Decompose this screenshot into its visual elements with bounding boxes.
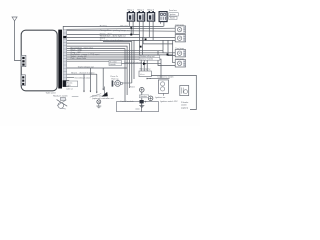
- LED connector blob: [63, 80, 70, 87]
- svg-text:Turn lamp: Turn lamp: [175, 57, 183, 60]
- text smudges: [46, 10, 189, 110]
- shock sensor icon: [96, 100, 101, 108]
- wire lower C: [67, 76, 74, 78]
- relay pin drop R2b: [142, 21, 144, 44]
- tiny plus mark: [145, 101, 147, 103]
- ignition switch box: [158, 80, 168, 94]
- relay R1: [127, 11, 134, 21]
- svg-text:Relay 2: Relay 2: [137, 10, 143, 12]
- siren label box: [139, 95, 148, 98]
- caption leader to arrow: [90, 94, 101, 98]
- ground symbol: [139, 106, 144, 108]
- relay pin drop R1a: [128, 21, 130, 26]
- lamp box FL4: [175, 60, 185, 67]
- wire row 9 (bend down): [67, 46, 127, 95]
- main control unit U1: [21, 30, 57, 91]
- svg-text:P-brake: P-brake: [181, 101, 189, 104]
- vertical drop x103: [102, 68, 104, 90]
- svg-text:console: console: [110, 64, 116, 66]
- svg-text:Hood pin switch: Hood pin switch: [53, 94, 69, 97]
- svg-text:Pink - dome light: Pink - dome light: [71, 57, 87, 60]
- table T2 (2 rows): [139, 55, 160, 60]
- wire row 11 to lamp3: [67, 40, 176, 52]
- relay pin drop R1b: [132, 21, 134, 34]
- table T1 (2 rows): [109, 61, 122, 66]
- ignition box stub: [163, 93, 165, 95]
- bell circle B2: [148, 96, 153, 101]
- drop arrowheads: [83, 89, 104, 94]
- vertical to table x139: [139, 34, 141, 55]
- svg-text:Connect to switch: Connect to switch: [157, 76, 174, 79]
- junction dot E: [167, 54, 169, 56]
- status LED label box: [66, 81, 78, 87]
- label box L2: [169, 17, 177, 20]
- connector J2 (left side lower): [21, 75, 25, 86]
- wire row 8 (bend down): [67, 43, 130, 88]
- relay pin drop R2a: [138, 21, 140, 34]
- svg-text:LED: LED: [67, 85, 71, 87]
- label box L1: [169, 13, 179, 16]
- svg-text:Ignition sw.: Ignition sw.: [155, 96, 166, 99]
- svg-text:Trunk release out: Trunk release out: [78, 65, 95, 68]
- small dark box on rect top: [140, 100, 144, 103]
- wire antenna lead: [15, 21, 22, 61]
- svg-text:Orange/blue - parking lamps ou: Orange/blue - parking lamps out: [100, 29, 130, 32]
- wire row 2: [67, 28, 176, 29]
- wire vertical with arrow: [130, 26, 132, 34]
- wire row 15: [67, 59, 161, 78]
- lamp box FL3: [175, 50, 185, 57]
- svg-text:Starter: Starter: [170, 17, 176, 20]
- wire branch y43.9: [143, 43, 173, 45]
- antenna ANT1: [12, 17, 17, 21]
- wire row 5: [67, 36, 176, 38]
- svg-text:Blue/white - trunk release: Blue/white - trunk release: [100, 39, 124, 42]
- svg-text:Horn sp.: Horn sp.: [111, 79, 119, 81]
- connector J1 (antenna, left side): [21, 55, 26, 66]
- svg-text:(optional module): (optional module): [140, 58, 153, 61]
- arrowhead on vertical: [130, 27, 132, 29]
- svg-text:Green/black door: Green/black door: [74, 76, 90, 79]
- svg-text:Valet switch: Valet switch: [46, 92, 56, 95]
- svg-text:Siren: Siren: [130, 85, 136, 88]
- svg-text:Turn lamp: Turn lamp: [175, 24, 183, 27]
- lamp box FL1: [175, 26, 185, 33]
- wire row 6: [67, 39, 176, 41]
- svg-text:Relay 1: Relay 1: [127, 10, 133, 12]
- svg-text:Mercury sw.: Mercury sw.: [140, 68, 152, 71]
- wire right loop: [151, 75, 196, 109]
- wire ignition feed: [147, 77, 170, 79]
- svg-text:(option): (option): [181, 106, 188, 109]
- hood label leader line: [72, 96, 79, 98]
- bottom rectangle outline: [117, 102, 159, 112]
- wire row 16: [67, 60, 109, 62]
- siren horn: [112, 80, 132, 86]
- svg-text:Control module: Control module: [120, 100, 134, 103]
- svg-text:Fuse box: Fuse box: [169, 10, 177, 12]
- wire row 12 to lamp3: [67, 40, 176, 55]
- lamp box FL2: [175, 35, 185, 42]
- junction dot D: [140, 46, 142, 48]
- wire fan: row 1 top: [63, 26, 163, 29]
- svg-text:valet sw: valet sw: [66, 88, 73, 91]
- relay R4 (top far right): [159, 12, 167, 22]
- relay R4 stub: [163, 22, 165, 27]
- svg-text:Parking: Parking: [100, 24, 108, 27]
- relay R2: [137, 11, 144, 21]
- svg-text:(optional) controller unit: (optional) controller unit: [92, 97, 114, 100]
- wire lower A: [67, 67, 127, 69]
- svg-text:12V const: 12V const: [120, 24, 128, 27]
- vertical to table x142: [142, 37, 144, 55]
- wire row 4: [67, 33, 140, 35]
- hood pin switch icon: [57, 98, 68, 110]
- wire harness connector strip: [63, 30, 67, 86]
- svg-text:Ignition: Ignition: [170, 13, 176, 16]
- svg-text:tilt sw: tilt sw: [140, 73, 145, 76]
- big harness arrow: [101, 92, 107, 97]
- bell circle B1: [140, 88, 145, 93]
- svg-text:Brown - channel 2 output: Brown - channel 2 output: [71, 71, 95, 74]
- relay R4 stub b: [160, 22, 162, 24]
- wire row 10 (bend down): [67, 49, 125, 102]
- wire row 3: [67, 29, 176, 32]
- junction dot B: [130, 34, 132, 36]
- arrow wire: [122, 63, 162, 65]
- svg-text:Speaker: Speaker: [140, 96, 147, 98]
- wire row 14 to lamp4: [67, 51, 176, 66]
- svg-text:Connect to harness: Connect to harness: [124, 61, 142, 64]
- wires table to mercury box: [141, 60, 147, 71]
- relay pin drop R3b: [152, 21, 154, 40]
- battery polarity marks: [146, 78, 151, 80]
- wire row 13 to lamp4: [67, 40, 176, 62]
- svg-text:Relay 3: Relay 3: [147, 10, 153, 12]
- svg-text:Ignition switch 12V: Ignition switch 12V: [160, 100, 178, 103]
- svg-text:switch: switch: [181, 104, 188, 107]
- relay pin drop R3a: [148, 21, 150, 37]
- junction dot C: [145, 38, 147, 40]
- relay R3: [147, 11, 154, 21]
- vertical drop x84: [83, 74, 85, 91]
- svg-text:Turn lamp: Turn lamp: [175, 47, 183, 50]
- vertical drop x96: [96, 74, 98, 92]
- wire lower B: [67, 73, 97, 75]
- vertical drop x90: [89, 68, 91, 92]
- main connector block (black bar): [58, 30, 62, 89]
- vertical x134 drop: [133, 40, 135, 79]
- inner vertical: [141, 103, 143, 111]
- wire bell to ground: [141, 92, 143, 105]
- arrowhead: [143, 62, 147, 65]
- mercury switch box: [139, 71, 151, 77]
- wire row 7 (bend down): [103, 42, 132, 83]
- parking brake box: [180, 86, 189, 96]
- bottom rect tick: [135, 108, 139, 110]
